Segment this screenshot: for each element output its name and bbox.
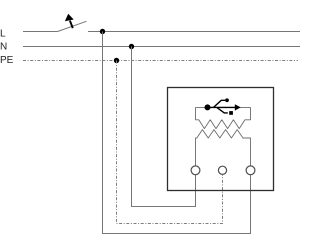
wire PE from dot down and right to middle terminal (dash-dot) — [117, 61, 223, 224]
junction dot on N — [129, 44, 134, 49]
junction dot on PE — [114, 58, 119, 63]
transformer secondary winding (lower) — [196, 130, 251, 167]
USB symbol — [205, 98, 241, 114]
wire L right segment — [88, 31, 300, 33]
USB upper branch with circle end — [214, 100, 226, 107]
svg-text:N: N — [0, 42, 7, 53]
USB arrowhead — [235, 104, 241, 110]
wire L left segment — [23, 31, 58, 33]
wire from N dot down and right to left terminal — [132, 47, 196, 207]
svg-text:PE: PE — [0, 55, 14, 66]
wire from L dot down and right to right terminal — [103, 32, 251, 234]
terminal circle left (N) — [191, 166, 200, 175]
switch S blade — [58, 21, 87, 31]
switch actuation arrow — [65, 14, 74, 28]
device box (socket outlet unit) — [168, 88, 274, 191]
wire PE (dash-dot) — [23, 60, 298, 62]
junction dot on L — [100, 29, 105, 34]
svg-text:L: L — [0, 29, 6, 40]
terminal circle middle (PE) — [218, 166, 226, 174]
wire N — [23, 46, 300, 48]
USB lower branch with square end — [217, 107, 228, 113]
USB main stem with start circle — [205, 104, 211, 110]
terminal circle right (L) — [246, 166, 255, 175]
transformer primary winding (upper, with USB line) — [196, 107, 251, 128]
